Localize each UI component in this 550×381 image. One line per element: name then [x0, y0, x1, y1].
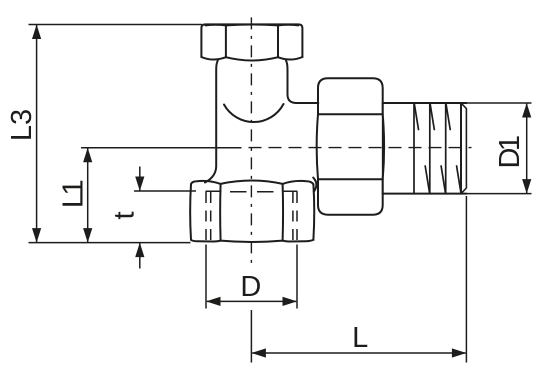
lower nut bottom arcs — [191, 240, 313, 242]
t extension line — [134, 190, 196, 192]
right hex nut outline — [318, 78, 383, 214]
L3 dimension line — [36, 25, 38, 242]
svg-text:D: D — [240, 271, 261, 303]
D1 arrow down — [522, 179, 531, 194]
L dimension line — [252, 352, 465, 354]
svg-text:t: t — [109, 211, 141, 219]
D1 dimension line — [526, 104, 528, 193]
L arrow right — [452, 348, 467, 357]
lower nut top arcs — [191, 181, 313, 185]
horizontal centerline — [249, 147, 472, 149]
D1 extension line top — [466, 102, 531, 104]
valve body left edge — [205, 61, 218, 183]
thread helix bottom diagonals — [425, 166, 461, 193]
vertical centerline — [250, 17, 252, 268]
L3 extension line top — [29, 24, 203, 26]
L1 dimension line — [87, 148, 89, 242]
nut right edge line — [382, 103, 384, 194]
hidden horizontal line in nut — [206, 190, 297, 192]
branch top line — [297, 102, 319, 104]
right hex nut middle band bulges — [317, 114, 384, 179]
thread end chamfer line — [460, 103, 462, 194]
valve body right edge and branch top corner — [286, 61, 297, 103]
D dimension line — [207, 300, 296, 302]
bottom baseline extension — [29, 242, 191, 244]
top hex cap bottom chamfer arcs — [201, 57, 302, 61]
thread root lines — [414, 103, 446, 194]
D extension line right — [296, 245, 298, 309]
L3 arrow up — [32, 25, 41, 40]
lower nut right edge — [312, 184, 315, 240]
svg-text:D1: D1 — [494, 136, 526, 168]
top hex cap facet dividers — [226, 26, 278, 58]
D extension line left — [205, 245, 207, 309]
internal dome arc — [224, 104, 284, 122]
hidden thread line right pair — [293, 192, 297, 240]
t dimension line lower tail — [139, 243, 141, 269]
t dimension line upper tail — [139, 167, 141, 191]
branch sliver between nuts — [313, 178, 316, 192]
top hex cap facet top arcs — [206, 24, 299, 27]
D1 extension line bottom — [466, 193, 531, 195]
threaded end outline — [383, 103, 467, 194]
L1 arrow down — [83, 228, 92, 243]
top hex cap — [201, 24, 302, 57]
right hex nut face dividers — [318, 114, 383, 179]
svg-text:L3: L3 — [6, 109, 38, 141]
L arrow left — [251, 348, 266, 357]
L3 arrow down — [32, 228, 41, 243]
L extension line center — [250, 310, 252, 363]
D1 arrow up — [522, 103, 531, 118]
D arrow left — [206, 297, 221, 306]
thread end chamfer slants and end face — [461, 103, 466, 194]
L1 arrow up — [83, 148, 92, 163]
L extension line right — [465, 196, 467, 363]
lower nut face dividers — [220, 184, 283, 241]
lower nut left edge — [189, 184, 192, 240]
svg-text:L1: L1 — [58, 181, 90, 209]
t arrow down to line — [135, 177, 144, 192]
hidden thread line left pair — [206, 192, 211, 240]
hidden horizontal dashes center — [230, 191, 274, 193]
D arrow right — [283, 297, 298, 306]
thread helix top diagonals — [414, 103, 450, 130]
svg-text:L: L — [352, 322, 368, 354]
t arrow up to baseline — [135, 243, 144, 258]
L1 extension line — [81, 147, 242, 149]
